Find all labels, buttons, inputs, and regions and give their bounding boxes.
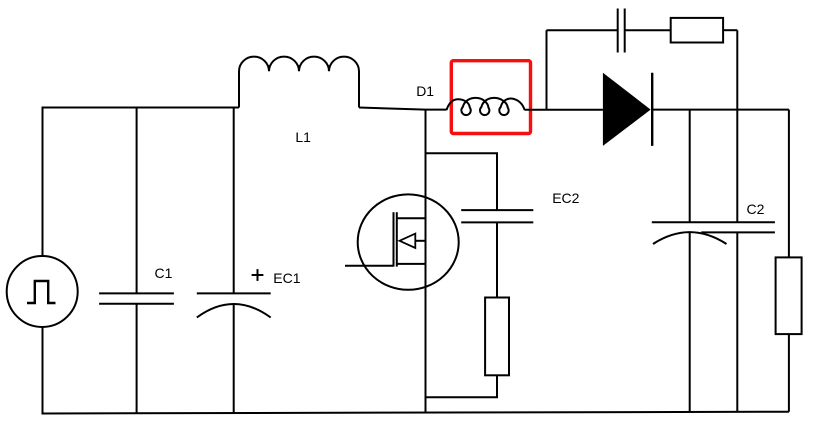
wire: C2 bottom lead: [736, 232, 738, 412]
capacitor C3 (snubber): [618, 9, 625, 53]
label EC1: [273, 271, 300, 285]
wire: junction to diode anode: [547, 109, 603, 111]
wire: C1 top lead: [136, 108, 138, 294]
highlight box (red): [451, 61, 530, 134]
wire: output net: [652, 109, 789, 111]
capacitor C1: [99, 293, 174, 303]
wire: output right vertical: [788, 110, 790, 258]
label C1: [155, 266, 173, 280]
label L1: [295, 130, 311, 144]
wire: C3 to R2: [625, 29, 671, 31]
wire: R1 bottom to source: [426, 375, 498, 397]
wire: EC1 bottom lead: [233, 304, 235, 413]
wire: coil to junction: [525, 109, 547, 111]
label EC2: [552, 191, 579, 205]
resistor R2 (snubber): [671, 18, 723, 43]
wire: drain vertical: [425, 110, 427, 413]
wire: junction up branch: [546, 30, 548, 110]
diode D1: [603, 73, 652, 146]
inductor L1: [239, 57, 359, 108]
label C2: [747, 202, 765, 216]
wire: L1 to drain node: [359, 108, 447, 110]
wire: EC1 top lead: [233, 108, 235, 294]
wire: source top lead: [42, 108, 44, 257]
wire: top input net: [42, 107, 240, 109]
wire: C1 bottom lead: [136, 304, 138, 414]
wire: ground bus: [42, 412, 789, 414]
wire: EC3 top lead: [689, 110, 691, 223]
capacitor EC2: [461, 210, 533, 222]
wire: R3 bottom lead: [788, 334, 790, 412]
wire: gate lead: [345, 265, 394, 267]
capacitor EC3 (output electrolytic): [652, 222, 775, 244]
label D1: [416, 84, 434, 98]
wire: EC2 to R1: [496, 222, 498, 297]
resistor R3 (load): [776, 257, 802, 334]
wire: snubber down vertical: [736, 30, 738, 222]
wire: source bottom lead: [42, 327, 44, 414]
pulse source V1: [7, 256, 78, 327]
wire: top branch to C3: [547, 29, 618, 31]
wire: snubber branch horizontal: [426, 153, 498, 210]
transistor Q1 (MOSFET): [358, 194, 459, 289]
inductor (coil in red box): [447, 98, 525, 115]
capacitor EC1: [197, 269, 271, 317]
wire: EC3 bottom lead: [689, 233, 691, 412]
resistor R1: [485, 298, 509, 376]
capacitor C2: [701, 231, 775, 233]
wire: R2 to down branch: [723, 29, 737, 31]
